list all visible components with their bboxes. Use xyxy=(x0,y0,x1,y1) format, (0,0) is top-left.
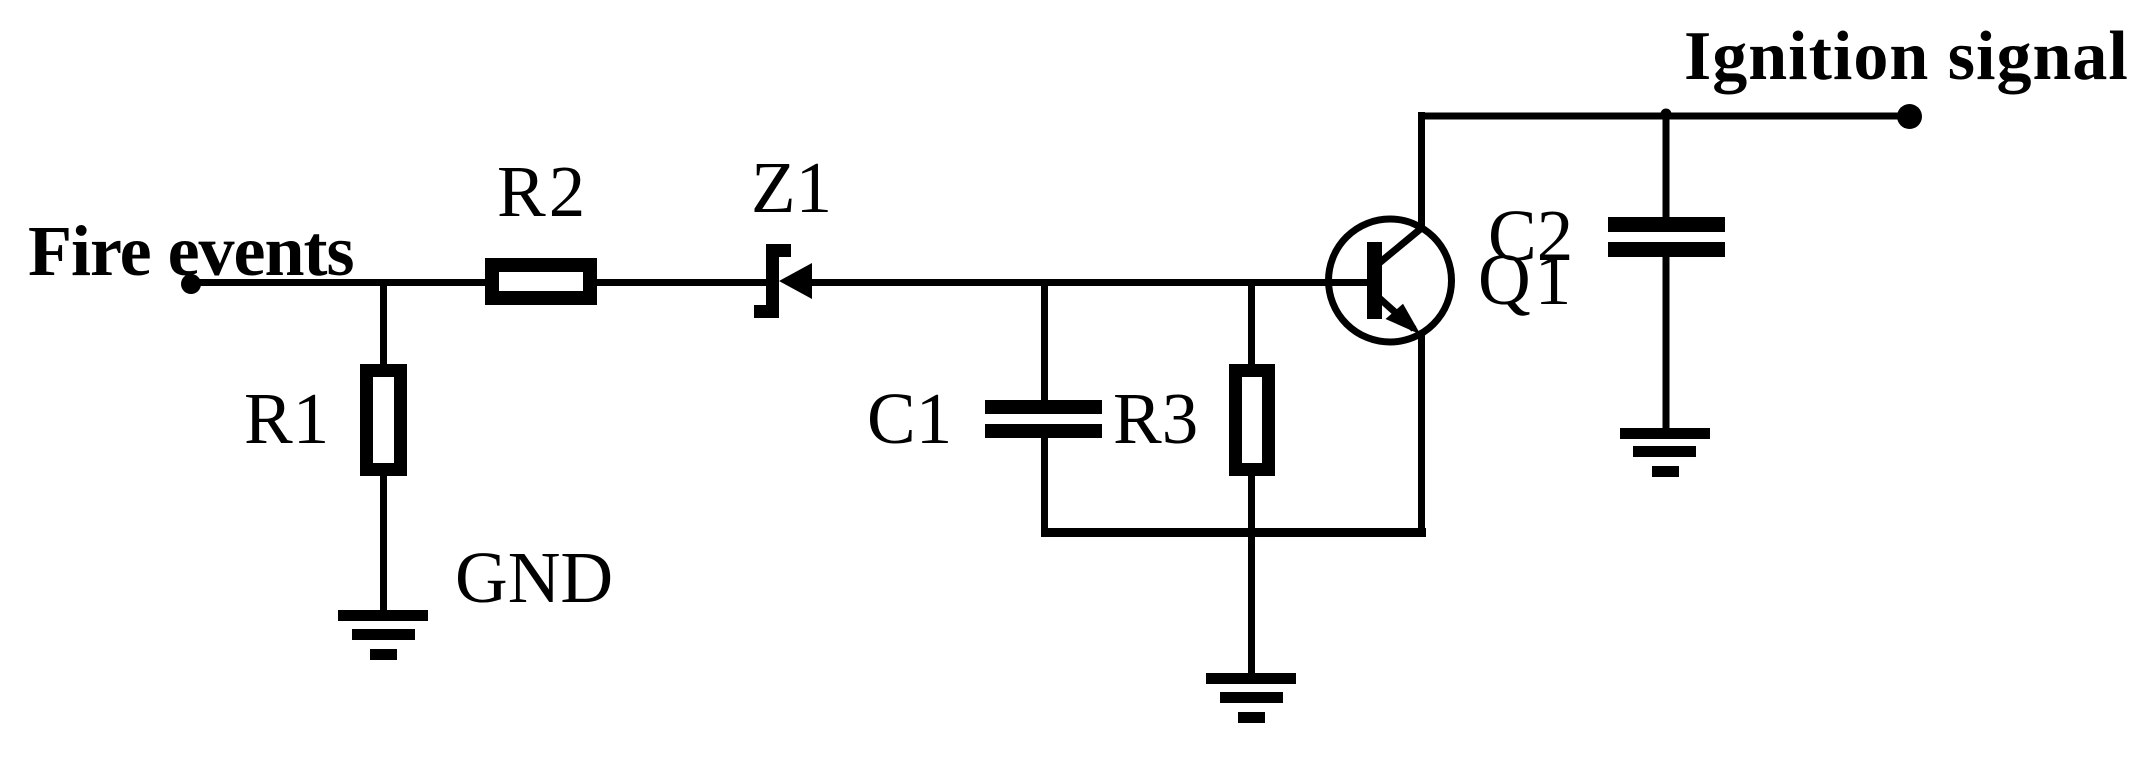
resistor R1 xyxy=(367,371,401,470)
node: Fire events input terminal dot xyxy=(181,274,201,294)
wire: drop to C1 xyxy=(1041,282,1048,402)
wire: R2 to Z1 xyxy=(597,279,766,286)
wire: emitter down to bottom rail xyxy=(1418,332,1425,536)
wire: top rail to output xyxy=(1418,113,1910,120)
node: junction dot at C2 xyxy=(1661,109,1672,120)
capacitor C1 xyxy=(985,400,1102,438)
ground (below C2) xyxy=(1620,428,1710,477)
wire: R3 through rail to ground xyxy=(1248,474,1255,674)
wire: C1 to bottom rail xyxy=(1041,437,1048,536)
transistor Q1 xyxy=(1329,219,1452,342)
capacitor C2 xyxy=(1608,217,1725,257)
wire: input to R2 xyxy=(191,279,485,286)
svg-text:Z1: Z1 xyxy=(751,147,832,228)
svg-text:R2: R2 xyxy=(497,151,588,232)
wire: C2 to ground xyxy=(1663,257,1670,429)
ground (below R3) xyxy=(1206,673,1296,723)
svg-text:Ignition signal: Ignition signal xyxy=(1684,18,2129,95)
svg-text:Q1: Q1 xyxy=(1478,239,1575,320)
wire: Z1 to Q1 base xyxy=(810,279,1367,286)
resistor R3 xyxy=(1236,371,1269,470)
wire: drop to R3 xyxy=(1248,282,1255,366)
resistor R2 xyxy=(492,265,590,298)
svg-text:GND: GND xyxy=(455,537,613,618)
svg-text:C1: C1 xyxy=(867,378,952,459)
svg-text:R1: R1 xyxy=(244,378,329,459)
wire: R1 to ground xyxy=(380,474,387,613)
zener diode Z1 xyxy=(754,244,812,318)
ground (below R1) xyxy=(338,610,428,660)
wire: collector up xyxy=(1418,112,1425,229)
node: output terminal dot xyxy=(1897,104,1922,129)
wire: bottom rail (emitter to C1/R3) xyxy=(1041,528,1426,537)
wire: drop to R1 xyxy=(380,282,387,366)
wire: top rail down to C2 xyxy=(1663,116,1670,218)
svg-text:R3: R3 xyxy=(1113,378,1198,459)
